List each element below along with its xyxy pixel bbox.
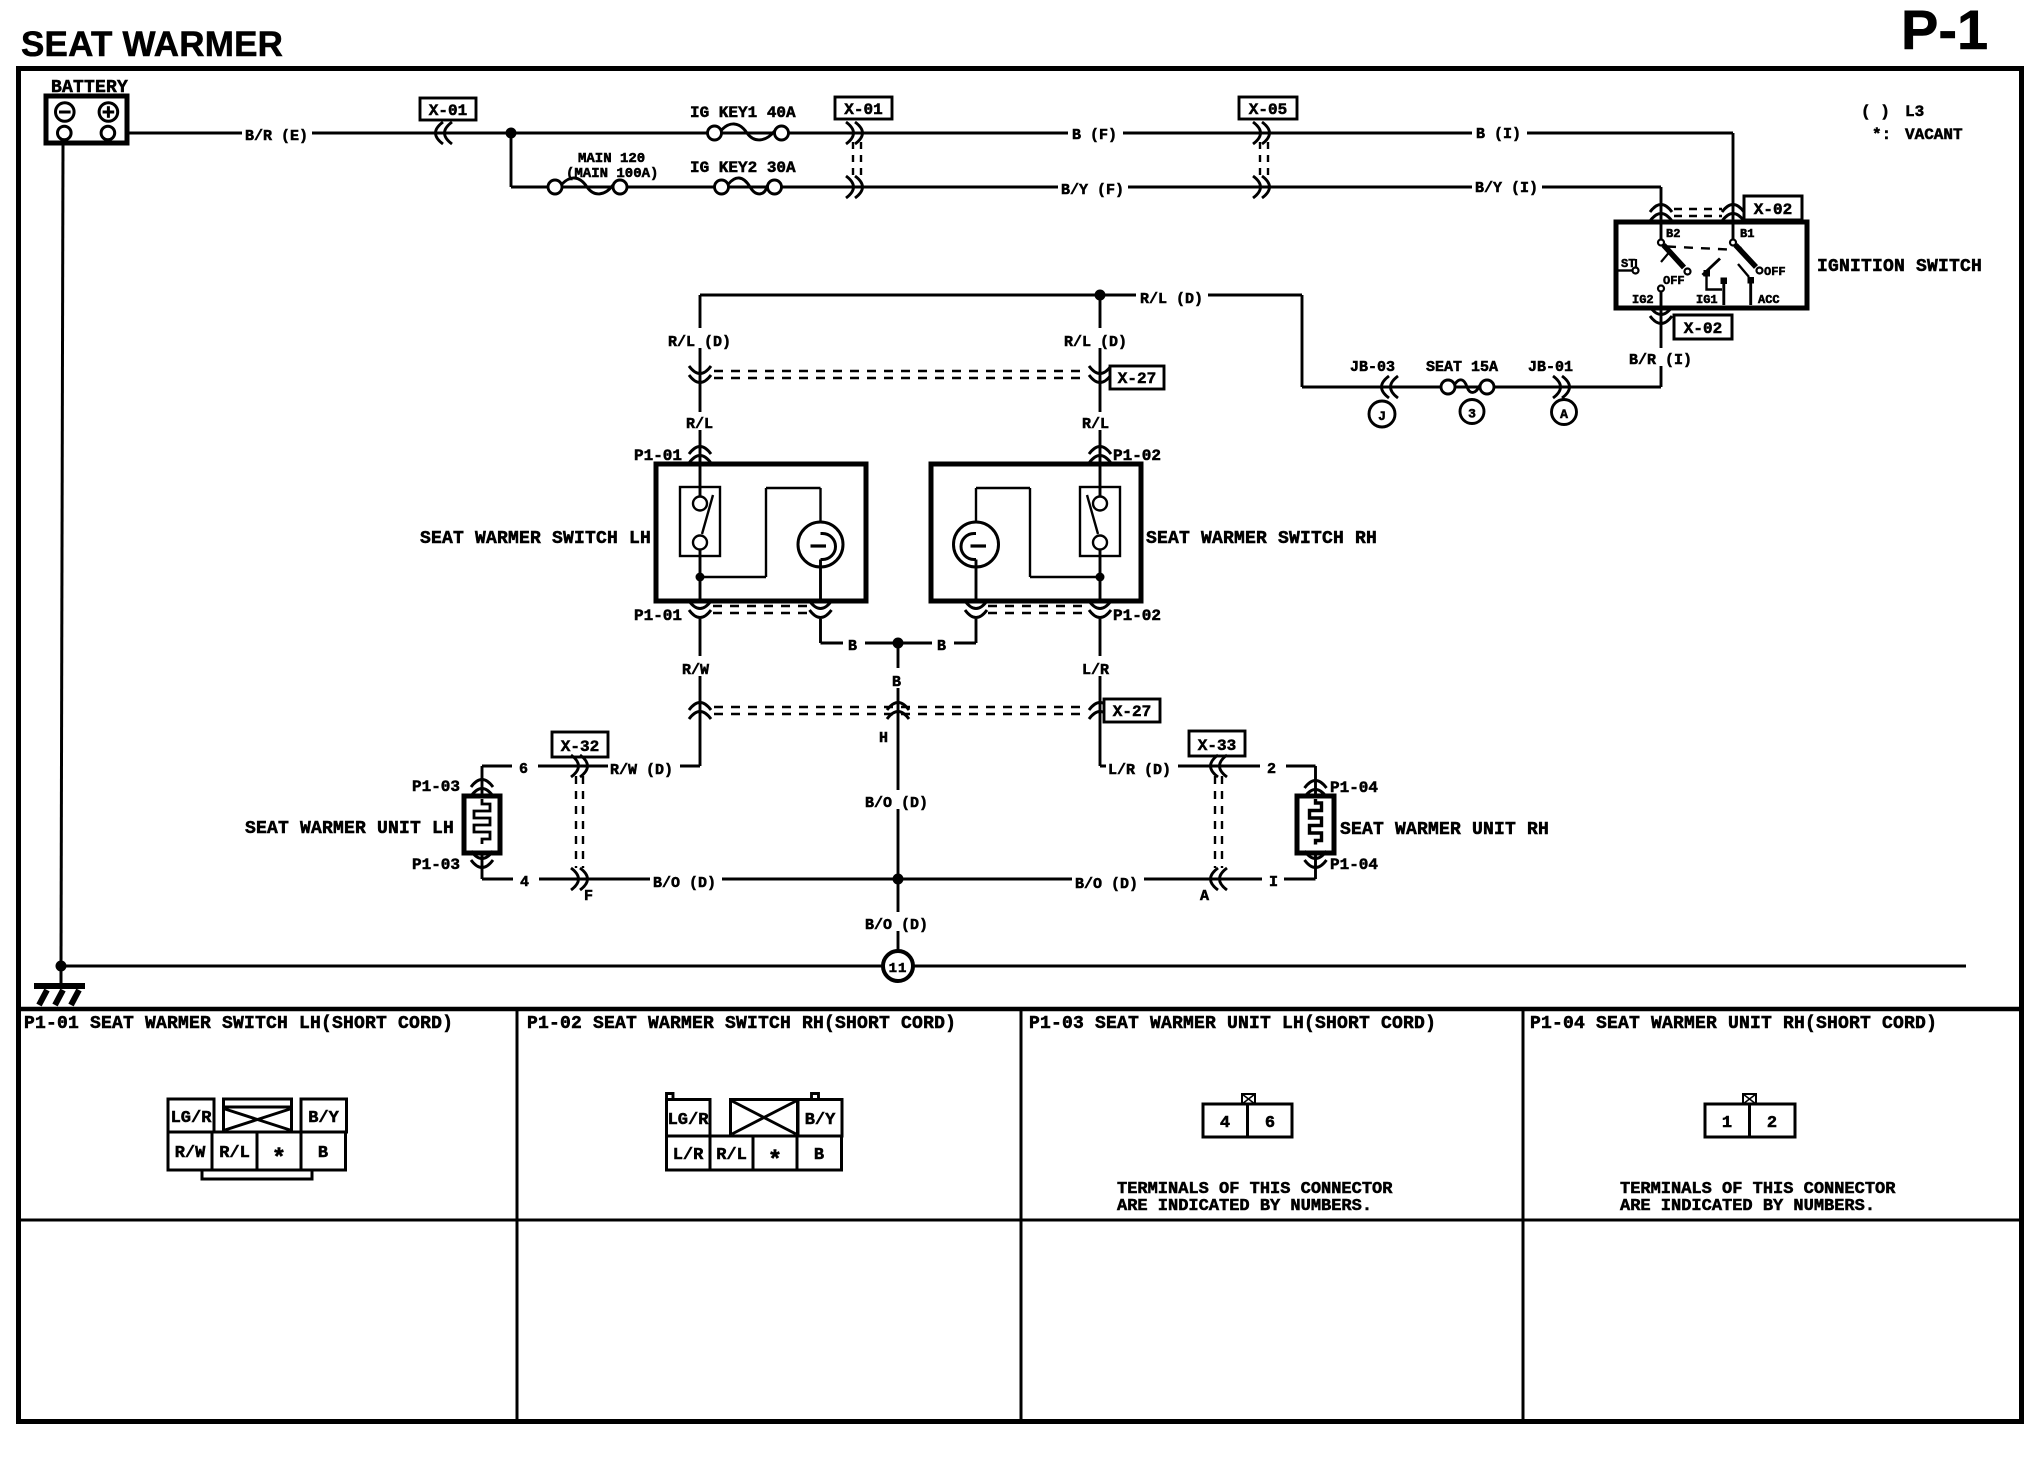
- seat warmer unit LH box: [464, 796, 500, 853]
- label B/Y (F): [1058, 177, 1128, 197]
- svg-text:R/L: R/L: [686, 416, 713, 433]
- P1-01 connector keyway cell: [224, 1099, 292, 1132]
- svg-text:J: J: [1378, 409, 1386, 424]
- heater element LH: [474, 799, 490, 844]
- RH switch internal wiring: [1099, 464, 1102, 497]
- svg-text:R/L (D): R/L (D): [668, 334, 731, 351]
- svg-text:B (F): B (F): [1072, 127, 1117, 144]
- svg-text:IG KEY2 30A: IG KEY2 30A: [690, 159, 796, 177]
- label B/O (D) bottom right: [1072, 871, 1144, 890]
- wire R/L (D) drop LH: [699, 295, 702, 465]
- connector X-02 (top): [1650, 205, 1672, 222]
- wire: corner down to ignition B2: [1660, 187, 1663, 243]
- label B (I): [1472, 121, 1527, 141]
- svg-text:B/R (E): B/R (E): [245, 128, 308, 145]
- svg-text:R/W (D): R/W (D): [610, 762, 673, 779]
- svg-text:B/Y: B/Y: [805, 1111, 836, 1130]
- svg-text:SEAT WARMER: SEAT WARMER: [21, 25, 283, 64]
- ground bus wire: [61, 965, 1966, 968]
- svg-text:2: 2: [1267, 761, 1276, 778]
- P1-02 connector pin B/Y: [798, 1100, 842, 1137]
- wire R/L (D) drop RH: [1099, 295, 1102, 465]
- wire: battery positive to X-01 (B/R (E)): [114, 132, 1733, 135]
- svg-text:JB-03: JB-03: [1350, 359, 1395, 376]
- svg-text:OFF: OFF: [1764, 265, 1786, 279]
- label R/L LH: [683, 412, 719, 430]
- wire L/R (D) to unit RH: [1100, 765, 1316, 768]
- P1-01 connector pin *: [257, 1132, 301, 1170]
- svg-text:SEAT 15A: SEAT 15A: [1426, 359, 1498, 376]
- svg-text:L/R: L/R: [1082, 662, 1109, 679]
- svg-text:*: *: [272, 1146, 286, 1173]
- wire B/O (D) down to ground point 11: [897, 879, 900, 951]
- svg-text:6: 6: [519, 761, 528, 778]
- svg-text:B: B: [848, 638, 857, 655]
- svg-text:X-32: X-32: [561, 738, 599, 756]
- svg-text:X-27: X-27: [1118, 370, 1156, 388]
- P1-02 connector pin R/L: [710, 1136, 753, 1170]
- label B (F): [1068, 122, 1123, 142]
- svg-text:B (I): B (I): [1476, 126, 1521, 143]
- ground symbol: [60, 966, 63, 984]
- label B (left): [843, 633, 865, 652]
- wire R/W drop LH: [699, 619, 702, 766]
- svg-text:VACANT: VACANT: [1905, 126, 1963, 144]
- connector X-33: [1189, 731, 1245, 756]
- seat warmer switch LH box: [656, 464, 866, 601]
- label B/R (I): [1626, 348, 1696, 366]
- P1-01 connector pin R/L: [212, 1132, 257, 1170]
- P1-03 connector latch tab: [1242, 1094, 1255, 1104]
- svg-text:SEAT WARMER UNIT RH: SEAT WARMER UNIT RH: [1340, 820, 1549, 840]
- P1-01 connector pin R/W: [168, 1132, 212, 1170]
- wire R/L (D) main distribution: [700, 294, 1302, 297]
- svg-text:B/Y (I): B/Y (I): [1475, 180, 1538, 197]
- svg-text:ACC: ACC: [1758, 293, 1780, 307]
- label B/R (E): [242, 122, 312, 142]
- svg-text:JB-01: JB-01: [1528, 359, 1573, 376]
- table middle divider: [18, 1219, 2021, 1222]
- battery ground wire down left side: [61, 143, 63, 966]
- svg-text:P1-04 SEAT WARMER UNIT RH(SHOR: P1-04 SEAT WARMER UNIT RH(SHORT CORD): [1530, 1014, 1937, 1034]
- svg-text:A: A: [1200, 888, 1209, 905]
- svg-text:P1-03: P1-03: [412, 856, 460, 874]
- svg-text:X-27: X-27: [1113, 703, 1151, 721]
- connector X-05: [1239, 97, 1297, 119]
- P1-03 connector pins 4 6: [1203, 1104, 1292, 1137]
- connector X-01 (harness side): [835, 97, 892, 119]
- label R/L (D) on main wire: [1136, 285, 1208, 305]
- svg-text:LG/R: LG/R: [171, 1109, 213, 1128]
- table column divider 3: [1522, 1009, 1525, 1422]
- svg-text:P1-01 SEAT WARMER SWITCH LH(SH: P1-01 SEAT WARMER SWITCH LH(SHORT CORD): [24, 1014, 453, 1034]
- battery box: [46, 96, 127, 143]
- label L/R (D): [1106, 756, 1178, 776]
- svg-text:X-02: X-02: [1754, 201, 1792, 219]
- P1-01 connector pin LG/R: [168, 1099, 214, 1132]
- label 2: [1260, 757, 1286, 775]
- P1-02 connector pin B: [797, 1136, 842, 1170]
- svg-text:B: B: [318, 1144, 328, 1163]
- svg-text:6: 6: [1265, 1114, 1275, 1133]
- label B/O (D) below junction: [862, 912, 934, 931]
- svg-text:B/R (I): B/R (I): [1629, 352, 1692, 369]
- wire bottom to unit RH: [898, 878, 1316, 881]
- connector X-27 (lower row): [689, 703, 711, 720]
- connector X-32: [552, 732, 608, 757]
- svg-text:P1-02 SEAT WARMER SWITCH RH(SH: P1-02 SEAT WARMER SWITCH RH(SHORT CORD): [527, 1014, 956, 1034]
- svg-text:B/O (D): B/O (D): [653, 875, 716, 892]
- svg-text:11: 11: [889, 961, 908, 977]
- svg-text:OFF: OFF: [1663, 274, 1685, 288]
- svg-text:R/W: R/W: [682, 662, 709, 679]
- svg-text:R/L: R/L: [1082, 416, 1109, 433]
- svg-text:R/L: R/L: [716, 1146, 747, 1165]
- RH switch contact symbol: [1080, 487, 1120, 556]
- label R/W (D): [608, 756, 680, 776]
- svg-text:2: 2: [1767, 1114, 1777, 1133]
- connector X-01 (battery side): [420, 98, 476, 120]
- ignition switch box: [1616, 222, 1807, 308]
- svg-text:IG2: IG2: [1632, 293, 1654, 307]
- svg-text:A: A: [1560, 407, 1568, 422]
- svg-text:LG/R: LG/R: [668, 1111, 710, 1130]
- terminal IG2: [1658, 286, 1664, 292]
- svg-text:R/L (D): R/L (D): [1140, 291, 1203, 308]
- label R/L (D) LH: [666, 328, 736, 348]
- svg-text:P1-03 SEAT WARMER UNIT LH(SHOR: P1-03 SEAT WARMER UNIT LH(SHORT CORD): [1029, 1014, 1436, 1034]
- svg-text:L/R: L/R: [673, 1146, 704, 1165]
- terminal B1: [1732, 222, 1735, 240]
- heater element RH: [1310, 799, 1322, 845]
- svg-text:R/L (D): R/L (D): [1064, 334, 1127, 351]
- svg-text:4: 4: [1220, 1114, 1230, 1133]
- svg-text:X-05: X-05: [1249, 101, 1287, 119]
- wire R/W (D) to unit LH: [482, 765, 700, 768]
- svg-text:P1-04: P1-04: [1330, 779, 1378, 797]
- svg-text:F: F: [584, 888, 593, 905]
- svg-text:B1: B1: [1740, 227, 1754, 241]
- svg-text:X-01: X-01: [429, 102, 467, 120]
- terminal ACC: [1748, 277, 1755, 284]
- svg-text:B: B: [814, 1146, 824, 1165]
- terminal B2: [1660, 222, 1663, 240]
- wire: corner down to ignition B1: [1732, 133, 1735, 243]
- ground point circle 11: [883, 951, 913, 981]
- svg-text:B/O (D): B/O (D): [865, 795, 928, 812]
- svg-text:( ): ( ): [1861, 103, 1890, 121]
- svg-text:I: I: [1269, 874, 1278, 891]
- svg-text:IGNITION SWITCH: IGNITION SWITCH: [1817, 257, 1982, 277]
- svg-text:B/Y (F): B/Y (F): [1061, 182, 1124, 199]
- label 4: [513, 870, 539, 888]
- svg-text:*: *: [768, 1148, 782, 1175]
- svg-text:H: H: [879, 730, 888, 747]
- svg-text:3: 3: [1468, 407, 1476, 422]
- P1-01 connector lower lug: [202, 1170, 312, 1179]
- svg-text:R/W: R/W: [175, 1144, 206, 1163]
- svg-text:B: B: [892, 674, 901, 691]
- svg-text:X-01: X-01: [844, 101, 882, 119]
- svg-text:IG KEY1 40A: IG KEY1 40A: [690, 104, 796, 122]
- svg-text:P1-03: P1-03: [412, 778, 460, 796]
- battery minus terminal: [56, 103, 75, 122]
- label L/R: [1080, 656, 1120, 676]
- P1-01 connector pin B: [301, 1132, 346, 1170]
- svg-text:B/O (D): B/O (D): [865, 917, 928, 934]
- svg-text:L3: L3: [1905, 103, 1924, 121]
- svg-text:P-1: P-1: [1901, 0, 1988, 61]
- svg-text:L/R (D): L/R (D): [1108, 762, 1171, 779]
- svg-text:ARE INDICATED BY NUMBERS.: ARE INDICATED BY NUMBERS.: [1117, 1197, 1372, 1216]
- junction R/L (D): [1095, 290, 1106, 301]
- seat warmer unit RH box: [1297, 796, 1334, 853]
- svg-text:X-33: X-33: [1198, 737, 1236, 755]
- svg-text:P1-04: P1-04: [1330, 856, 1378, 874]
- label I: [1262, 870, 1284, 888]
- svg-text:1: 1: [1722, 1114, 1732, 1133]
- label R/L (D) RH: [1062, 328, 1132, 348]
- P1-02 connector keyway cell: [731, 1100, 798, 1137]
- svg-text:SEAT WARMER SWITCH LH: SEAT WARMER SWITCH LH: [420, 529, 651, 549]
- svg-text:SEAT WARMER UNIT LH: SEAT WARMER UNIT LH: [245, 819, 454, 839]
- svg-text:B: B: [937, 638, 946, 655]
- connector X-27 (upper row): [689, 366, 711, 383]
- wire unit LH to B/O (D): [481, 853, 484, 879]
- P1-01 connector pin B/Y: [301, 1099, 347, 1132]
- P1-02 connector pin L/R: [667, 1136, 711, 1170]
- LH indicator lamp: [798, 522, 843, 567]
- svg-text:B2: B2: [1666, 227, 1680, 241]
- LH switch internal wiring: [699, 464, 702, 497]
- label B/O (D) bottom left: [650, 869, 722, 889]
- junction at X-01 split: [506, 128, 517, 139]
- svg-text:IG1: IG1: [1696, 293, 1718, 307]
- svg-text:B/Y: B/Y: [308, 1109, 339, 1128]
- P1-02 connector pin LG/R: [667, 1100, 711, 1137]
- table column divider 1: [516, 1009, 519, 1422]
- IG1 lever: [1703, 259, 1721, 276]
- terminal IG1: [1721, 278, 1728, 285]
- table section top border: [18, 1007, 2021, 1012]
- wire IG2 down through X-02: [1660, 292, 1663, 387]
- LH switch contact symbol: [680, 487, 720, 556]
- battery post circles: [58, 126, 72, 140]
- svg-text:B/O (D): B/O (D): [1075, 876, 1138, 893]
- table column divider 2: [1020, 1009, 1023, 1422]
- fuse number 3: [1460, 400, 1484, 424]
- svg-text:P1-02: P1-02: [1113, 607, 1161, 625]
- label R/W: [680, 656, 720, 676]
- label B/O (D) on center drop: [862, 790, 934, 809]
- label R/L RH: [1079, 412, 1115, 430]
- seat warmer switch RH box: [931, 464, 1141, 601]
- wire B network from lamps: [819, 619, 822, 643]
- wire: MAIN/IG KEY2 branch (B/Y): [510, 133, 513, 187]
- B2 blade to OFF: [1664, 245, 1685, 268]
- svg-text:4: 4: [520, 874, 529, 891]
- wire L/R drop RH: [1099, 619, 1102, 766]
- connector X-02 (bottom): [1650, 307, 1672, 324]
- P1-02 connector top lugs: [667, 1094, 674, 1100]
- battery plus terminal: [99, 103, 118, 122]
- gang dashes B2-B1: [1667, 247, 1728, 250]
- svg-text:SEAT WARMER SWITCH RH: SEAT WARMER SWITCH RH: [1146, 529, 1377, 549]
- P1-02 connector pin *: [753, 1136, 797, 1170]
- junction ground bus at battery: [56, 961, 67, 972]
- wire B center drop: [897, 643, 900, 879]
- P1-04 connector latch tab: [1743, 1094, 1756, 1104]
- label B/Y (I): [1472, 175, 1542, 195]
- svg-text:R/L: R/L: [219, 1144, 250, 1163]
- svg-text:ARE INDICATED BY NUMBERS.: ARE INDICATED BY NUMBERS.: [1620, 1197, 1875, 1216]
- svg-text:*:: *:: [1872, 126, 1891, 144]
- svg-text:MAIN 120: MAIN 120: [578, 151, 645, 167]
- B1 blade to OFF: [1736, 245, 1757, 267]
- P1-04 connector pins 1 2: [1705, 1104, 1795, 1137]
- svg-text:X-02: X-02: [1684, 320, 1722, 338]
- svg-text:P1-01: P1-01: [634, 607, 682, 625]
- label B (right): [932, 633, 954, 652]
- label B (center): [888, 668, 908, 688]
- label 6: [512, 757, 538, 775]
- junction bottom center: [893, 874, 904, 885]
- RH indicator lamp: [954, 522, 999, 567]
